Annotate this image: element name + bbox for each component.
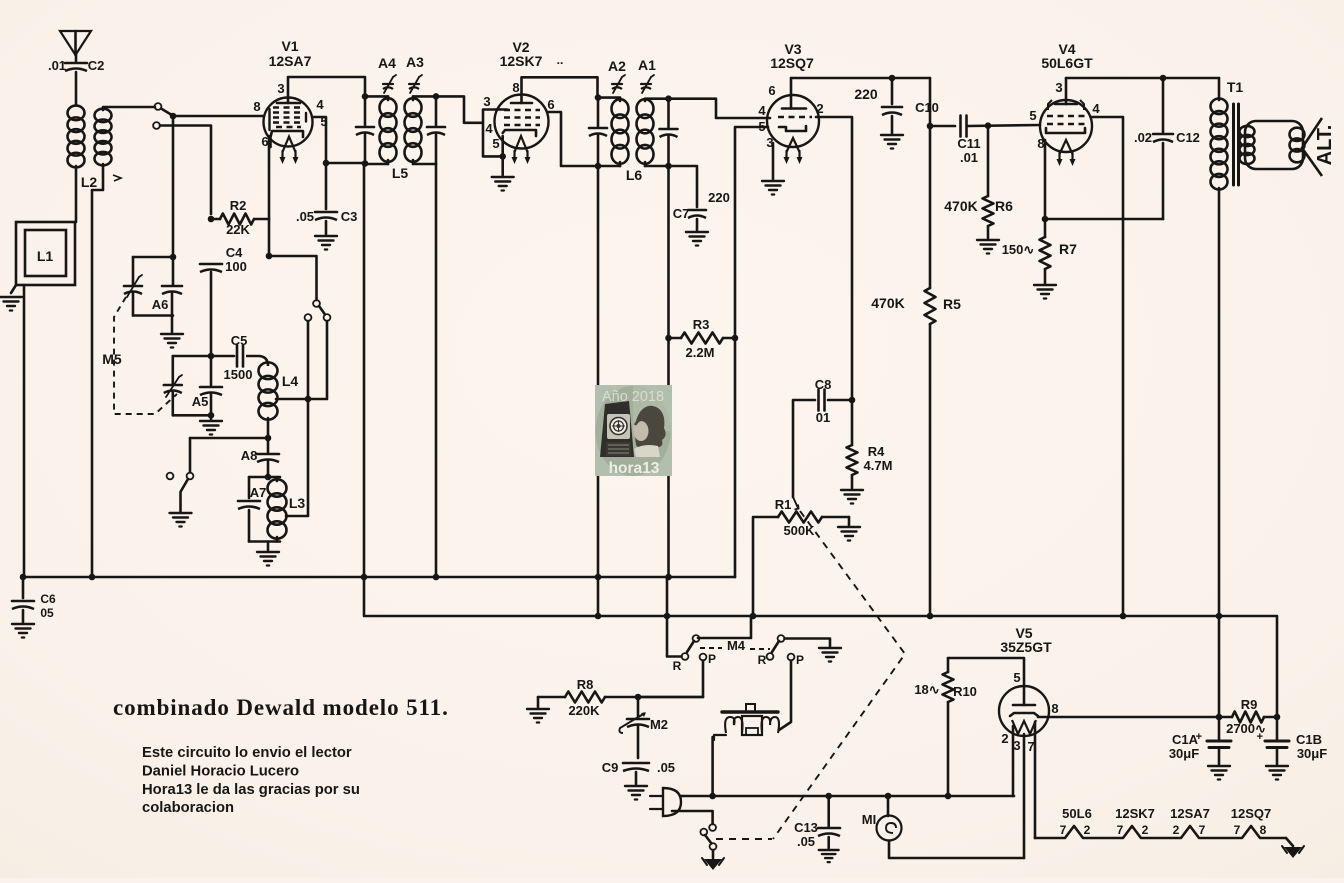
wire antenna to C2 [75, 54, 78, 61]
svg-text:C1A: C1A [1172, 732, 1199, 747]
phono switch lever [181, 479, 188, 491]
speaker ALT [1245, 118, 1336, 176]
node C8 right [849, 397, 856, 404]
label L2 [81, 174, 121, 190]
wire L5 to V2 grid [436, 96, 507, 122]
svg-text:12SK7: 12SK7 [500, 53, 543, 69]
wire L4 bottom to switch [190, 437, 268, 440]
L6 right top rail [645, 97, 669, 100]
wire R7 to ground [1044, 269, 1047, 283]
coil L2 left winding [68, 106, 85, 168]
node bus L2 [89, 574, 96, 581]
wire C13 stem [827, 796, 830, 826]
capacitor C4 [200, 245, 247, 274]
resistor R7 [1040, 219, 1051, 269]
wire V4 pin8 down [1044, 140, 1047, 219]
svg-text:.05: .05 [296, 209, 314, 224]
label R8 [577, 677, 594, 692]
wire V2 cathode down [501, 136, 504, 156]
node V1 grid / antenna junction [170, 113, 177, 120]
svg-text:2: 2 [1084, 823, 1091, 837]
wire to A8 [267, 438, 270, 452]
ground under R7 [1034, 285, 1056, 299]
svg-text:R2: R2 [230, 198, 247, 213]
node V2 cathode [499, 153, 506, 160]
wire L2 left bottom to L1 [75, 166, 78, 222]
V3 plate bar and pin 6 lead [782, 78, 806, 109]
resistor R9 [1219, 712, 1277, 723]
capacitor L5 left [356, 96, 374, 163]
wire switch to ground arrow [712, 850, 715, 858]
svg-text:2: 2 [1142, 823, 1149, 837]
svg-text:Hora13 le da las gracias por s: Hora13 le da las gracias por su [142, 782, 360, 798]
svg-text:A1: A1 [638, 57, 656, 73]
capacitor C8 [815, 377, 832, 425]
switch M4-B lever terminal [778, 635, 785, 642]
svg-text:L6: L6 [626, 167, 643, 183]
V2 cathode [503, 130, 536, 136]
svg-text:P: P [796, 653, 804, 667]
label 12SQ7 [770, 55, 814, 71]
svg-text:12SK7: 12SK7 [1115, 806, 1155, 821]
svg-text:P: P [708, 652, 716, 666]
node R3 left [665, 335, 672, 342]
capacitor C10 [854, 86, 939, 115]
ground under V2 [492, 177, 514, 191]
ground under L3 [257, 552, 279, 566]
V5 heater filament [1012, 720, 1036, 734]
wire cathode node to band switch pivot [0, 0, 1, 1]
wire A5 var bottom [172, 392, 175, 415]
svg-text:L5: L5 [392, 165, 409, 181]
node C3 junction [323, 160, 330, 167]
wire plate line to T1 [1218, 78, 1221, 100]
svg-text:A5: A5 [192, 394, 209, 409]
node L4 tap [305, 396, 312, 403]
label 12SK7 [500, 53, 564, 69]
svg-text:R4: R4 [868, 444, 885, 459]
wire A5 var branch [172, 356, 175, 384]
node R3 right [732, 335, 739, 342]
label L3 [289, 495, 306, 511]
label A5 [192, 394, 209, 409]
svg-text:50L6GT: 50L6GT [1041, 55, 1093, 71]
credit line 4 [142, 800, 234, 816]
wire C1A ground [1218, 748, 1221, 764]
loop antenna L1 [16, 222, 75, 285]
switch M4-A R terminal [682, 653, 689, 660]
wire A6 top rail [133, 256, 173, 259]
svg-text:4: 4 [1092, 101, 1100, 116]
antenna [60, 31, 91, 55]
node AC motor branch [709, 793, 716, 800]
wire A5 bottom rail [173, 414, 211, 417]
svg-text:M5: M5 [102, 351, 122, 367]
L5 right top rail [413, 95, 436, 98]
wire A8 to L3 box [267, 461, 270, 477]
L5 right bottom rail [413, 163, 436, 166]
svg-text:R1: R1 [775, 497, 792, 512]
wire motor branch up [711, 737, 714, 796]
wire R5 to C11 [930, 125, 955, 128]
svg-text:4: 4 [485, 121, 493, 136]
svg-text:hora13: hora13 [609, 460, 660, 477]
svg-text:4: 4 [316, 97, 324, 112]
label R10 [953, 684, 977, 699]
ground under A5 [200, 421, 222, 435]
ground under L1 [0, 297, 22, 311]
label 470K [944, 198, 977, 214]
svg-text:M2: M2 [650, 717, 668, 732]
label 150 [1002, 242, 1035, 257]
svg-text:C11: C11 [957, 136, 980, 151]
V4 pin 8 label [1037, 136, 1044, 151]
node AC C13 [825, 793, 832, 800]
node L6 left bottom [595, 163, 602, 170]
svg-text:5: 5 [1029, 108, 1036, 123]
switch terminal (wavemagnet) A [155, 103, 162, 110]
svg-text:R5: R5 [943, 296, 961, 312]
label 12SQ7 pins [1231, 806, 1271, 837]
svg-text:3: 3 [1013, 738, 1020, 753]
V5 pin 5 label [1013, 670, 1020, 685]
wire R6 to ground [987, 226, 990, 238]
switch M4-A P terminal [700, 654, 707, 661]
svg-text:2: 2 [1173, 823, 1180, 837]
coil L5 primary [380, 96, 397, 164]
node L6 right top [665, 95, 672, 102]
node A6 top [170, 254, 177, 261]
wire right terminal up [189, 438, 192, 473]
AC switch top terminal [709, 824, 716, 831]
dashed gang line R1 to AC switch [773, 511, 905, 839]
wire V1 grid line [175, 115, 264, 118]
pilot lamp M1 [862, 812, 902, 841]
wire T1 bus to C1A [1218, 616, 1221, 717]
label 2700 [1226, 721, 1266, 736]
label R (M4-A) [673, 659, 682, 673]
wire lever to ground [179, 492, 182, 511]
capacitor C11 [957, 116, 980, 166]
node L3 top [265, 474, 272, 481]
V2 grid rows [504, 110, 540, 125]
node A5 ground [208, 412, 215, 419]
switch M4-B R terminal [767, 653, 774, 660]
svg-text:R6: R6 [995, 198, 1013, 214]
svg-text:C3: C3 [341, 209, 358, 224]
wire L5 left down to AVC bus [363, 164, 366, 577]
wire C6 ground [22, 610, 25, 622]
node bus L5 left [361, 574, 368, 581]
V3 grid row [778, 116, 812, 119]
ground under V3 [762, 181, 784, 195]
svg-text:L3: L3 [289, 495, 306, 511]
wire P down to R8 node [638, 661, 703, 698]
wire R3 bus crossing [666, 577, 669, 616]
wire L6 right down to R3 [667, 166, 670, 577]
V1 grid rows [270, 108, 307, 131]
label P (M4-B) [796, 653, 804, 667]
tube V5 35Z5GT envelope [999, 686, 1049, 736]
capacitor A7 [238, 485, 266, 509]
volume pot R1 wiper arrow [793, 497, 799, 510]
node L6 right bottom [665, 163, 672, 170]
svg-text:6: 6 [261, 134, 268, 149]
svg-text:4: 4 [758, 103, 766, 118]
V1 pin 6 label [261, 134, 268, 149]
svg-text:L4: L4 [282, 373, 299, 389]
svg-text:A4: A4 [378, 55, 396, 71]
node L4 bottom [265, 435, 272, 442]
title text [113, 695, 449, 720]
svg-text:R: R [673, 659, 682, 673]
ground arrow AC switch [702, 858, 724, 870]
AVC bus [23, 576, 735, 579]
node AC M1 [885, 793, 892, 800]
V1 pin 3 label [277, 81, 284, 96]
wire T1 primary bottom [1218, 188, 1221, 617]
capacitor L6 left [589, 98, 607, 166]
wire A6 to ground [171, 316, 174, 333]
svg-text:R7: R7 [1059, 241, 1077, 257]
wire down to C3 [325, 163, 328, 209]
AC switch pivot terminal [700, 829, 707, 836]
svg-text:5: 5 [492, 136, 499, 151]
svg-text:18∿: 18∿ [914, 682, 939, 697]
svg-text:C2: C2 [88, 58, 105, 73]
switch terminal (wavemagnet) B [153, 122, 160, 129]
V5 pin 3 label [1013, 738, 1020, 753]
node R2 left [208, 216, 215, 223]
wire M4-B lever to ground [785, 639, 831, 647]
wire V5 pin2 lead [1012, 726, 1015, 796]
wire C11 to V4 pin5 [968, 125, 1040, 126]
wire C13 ground [827, 837, 830, 848]
svg-text:T1: T1 [1227, 79, 1244, 95]
wire V2 pin4 loop [483, 124, 503, 157]
capacitor L6 right [660, 99, 678, 166]
coil L6 primary [612, 98, 629, 166]
wire C10 to ground [891, 116, 894, 133]
wire R1 right to ground [848, 517, 851, 525]
svg-text:8: 8 [1260, 823, 1267, 837]
capacitor C9 [602, 760, 675, 775]
V2 pin 6 label [547, 97, 554, 112]
wire C4 to C5 rail [210, 272, 213, 356]
wire L3 left rail [248, 477, 251, 498]
svg-text:01: 01 [816, 410, 830, 425]
svg-text:C12: C12 [1176, 130, 1200, 145]
ground arrow heater chain [1282, 846, 1304, 858]
capacitor C3 [296, 209, 357, 224]
svg-text:5: 5 [1013, 670, 1020, 685]
V5 cathode [1010, 713, 1038, 716]
ground under R6 [977, 240, 999, 254]
label 12SA7 [269, 53, 312, 69]
svg-text:.05: .05 [657, 760, 675, 775]
wire C2 to L2 [75, 72, 78, 104]
wire V5 pin8 line [1038, 716, 1216, 719]
wire L3 bottom rail [249, 540, 280, 543]
svg-text:A8: A8 [241, 448, 258, 463]
wire A5 to ground [210, 415, 213, 419]
tube V4 50L6GT envelope [1040, 100, 1092, 152]
label 12SA7 pins [1170, 806, 1210, 837]
node volume bus T1 [1216, 613, 1223, 620]
ground under C6 [12, 624, 34, 638]
capacitor C1B [1257, 717, 1328, 761]
trimmer A4 [378, 55, 396, 93]
svg-text:05: 05 [40, 606, 54, 620]
svg-text:7: 7 [1060, 823, 1067, 837]
svg-text:Año 2018: Año 2018 [602, 389, 664, 405]
wire cathode bypass rail [1045, 218, 1163, 221]
V4 grid rows [1047, 116, 1086, 124]
wire V5 pin3 lead [1023, 734, 1026, 858]
label V2 [512, 39, 529, 55]
capacitor L5 right [427, 96, 445, 164]
wire V1 cathode to R2 [268, 136, 271, 219]
wire C1B ground [1276, 748, 1279, 764]
node bus C6 [20, 574, 27, 581]
wire V2 cathode to ground [501, 156, 504, 175]
T1 core [1234, 104, 1239, 185]
svg-text:8: 8 [253, 99, 260, 114]
V5 pin 7 label [1027, 739, 1034, 754]
wire A7 bottom [248, 510, 251, 542]
node M2 tap [635, 694, 642, 701]
svg-text:+: + [1257, 731, 1263, 743]
wire M1 top [887, 796, 890, 816]
wire C5 to L4 [246, 356, 268, 366]
L5 left bottom rail [364, 163, 388, 166]
svg-text:C6: C6 [40, 592, 56, 606]
svg-text:50L6: 50L6 [1062, 806, 1092, 821]
wire M2 to C9 [637, 726, 640, 758]
L6 left bottom rail [598, 165, 620, 168]
svg-text:L2: L2 [81, 174, 98, 190]
ground under R1 [838, 527, 860, 541]
wire V3 plate to R5 [929, 78, 932, 288]
node bus R3 [665, 574, 672, 581]
svg-text:8: 8 [1037, 136, 1044, 151]
wire C7 to ground [696, 219, 699, 230]
wire L4 bottom [267, 418, 270, 438]
resistor R5 [871, 288, 961, 324]
svg-text:8: 8 [512, 80, 519, 95]
node R10 AC [945, 793, 952, 800]
wire R1 right [822, 516, 849, 519]
label 2.2M [686, 345, 715, 360]
variable capacitor M2 [619, 712, 668, 733]
V5 pin 2 label [1001, 731, 1008, 746]
svg-text:3: 3 [1055, 80, 1062, 95]
wire R10 top to V5 pin5 [948, 658, 1024, 686]
V3 pin 5 label [758, 119, 765, 134]
svg-text:30μF: 30μF [1297, 746, 1327, 761]
V5 pin 8 label [1051, 701, 1058, 716]
svg-text:combinado Dewald modelo 511.: combinado Dewald modelo 511. [113, 695, 449, 720]
wire C12 down [1162, 143, 1165, 219]
trimmer A2 [608, 58, 626, 93]
volume bus [364, 577, 1277, 718]
wire R2 right down [268, 219, 271, 256]
svg-text:2: 2 [816, 101, 823, 116]
tube V3 12SQ7 envelope [767, 95, 819, 147]
node L5 left top [362, 93, 369, 100]
wire V4 pin4 down [1092, 117, 1123, 616]
wire L3 top rail [249, 476, 280, 479]
capacitor C12 stem [1162, 78, 1165, 132]
wire terminal B to C4 branch [160, 126, 211, 215]
V1 pin 4 label [316, 97, 324, 112]
credit line 2 [142, 764, 299, 780]
wire L2 right bottom down [92, 164, 103, 577]
heater chain wire [1035, 826, 1293, 846]
svg-text:220: 220 [854, 86, 878, 102]
node volume bus R1 [750, 613, 757, 620]
svg-text:470K: 470K [944, 198, 977, 214]
label V3 [784, 41, 801, 57]
svg-text:7: 7 [1117, 823, 1124, 837]
resistor R2 [211, 198, 269, 237]
ground under C7 [686, 232, 708, 246]
node R9 left [1216, 714, 1223, 721]
svg-text:A2: A2 [608, 58, 626, 74]
wire A6 bottom rail [133, 314, 173, 317]
wire C8 left [793, 400, 815, 497]
label 500K [783, 523, 815, 538]
label P (M4-A) [708, 652, 716, 666]
svg-text:A6: A6 [152, 297, 169, 312]
svg-text:C8: C8 [815, 377, 832, 392]
capacitor C6 [12, 577, 56, 620]
svg-text:.01: .01 [48, 58, 66, 73]
node R6 top [985, 122, 992, 129]
V4 plate bar and pin 3 lead [1055, 78, 1077, 104]
ground under C1B [1266, 766, 1288, 780]
wire R1 left [753, 517, 778, 616]
svg-text:..: .. [557, 53, 564, 67]
node L5 left bottom [362, 160, 369, 167]
label R1 [775, 497, 792, 512]
node bus L6 left [595, 574, 602, 581]
node C10 top [889, 75, 896, 82]
svg-text:C7: C7 [673, 206, 690, 221]
svg-text:R: R [758, 653, 767, 667]
svg-text:A7: A7 [250, 485, 267, 500]
tube V1 12SA7 envelope [264, 98, 313, 147]
coil T1 secondary [1240, 126, 1255, 164]
capacitor C13 [794, 820, 840, 849]
trimmer A3 [406, 54, 424, 93]
svg-text:12SA7: 12SA7 [269, 53, 312, 69]
node volume bus R5 [927, 613, 934, 620]
wire C9 to ground [635, 772, 638, 784]
capacitor C7 [673, 190, 730, 221]
mains plug [650, 788, 684, 816]
wire junction down to A6 [172, 116, 175, 256]
wire A6 var bottom [132, 293, 135, 316]
ground under phono switch [170, 513, 192, 527]
resistor R6 [983, 126, 994, 226]
resistor R3 [669, 333, 736, 344]
ground under R8 [527, 709, 549, 723]
label 18 [914, 682, 939, 697]
coil T1 primary [1211, 98, 1228, 189]
wire C3 to ground [325, 221, 328, 234]
wire to L5 bottom [326, 162, 364, 165]
